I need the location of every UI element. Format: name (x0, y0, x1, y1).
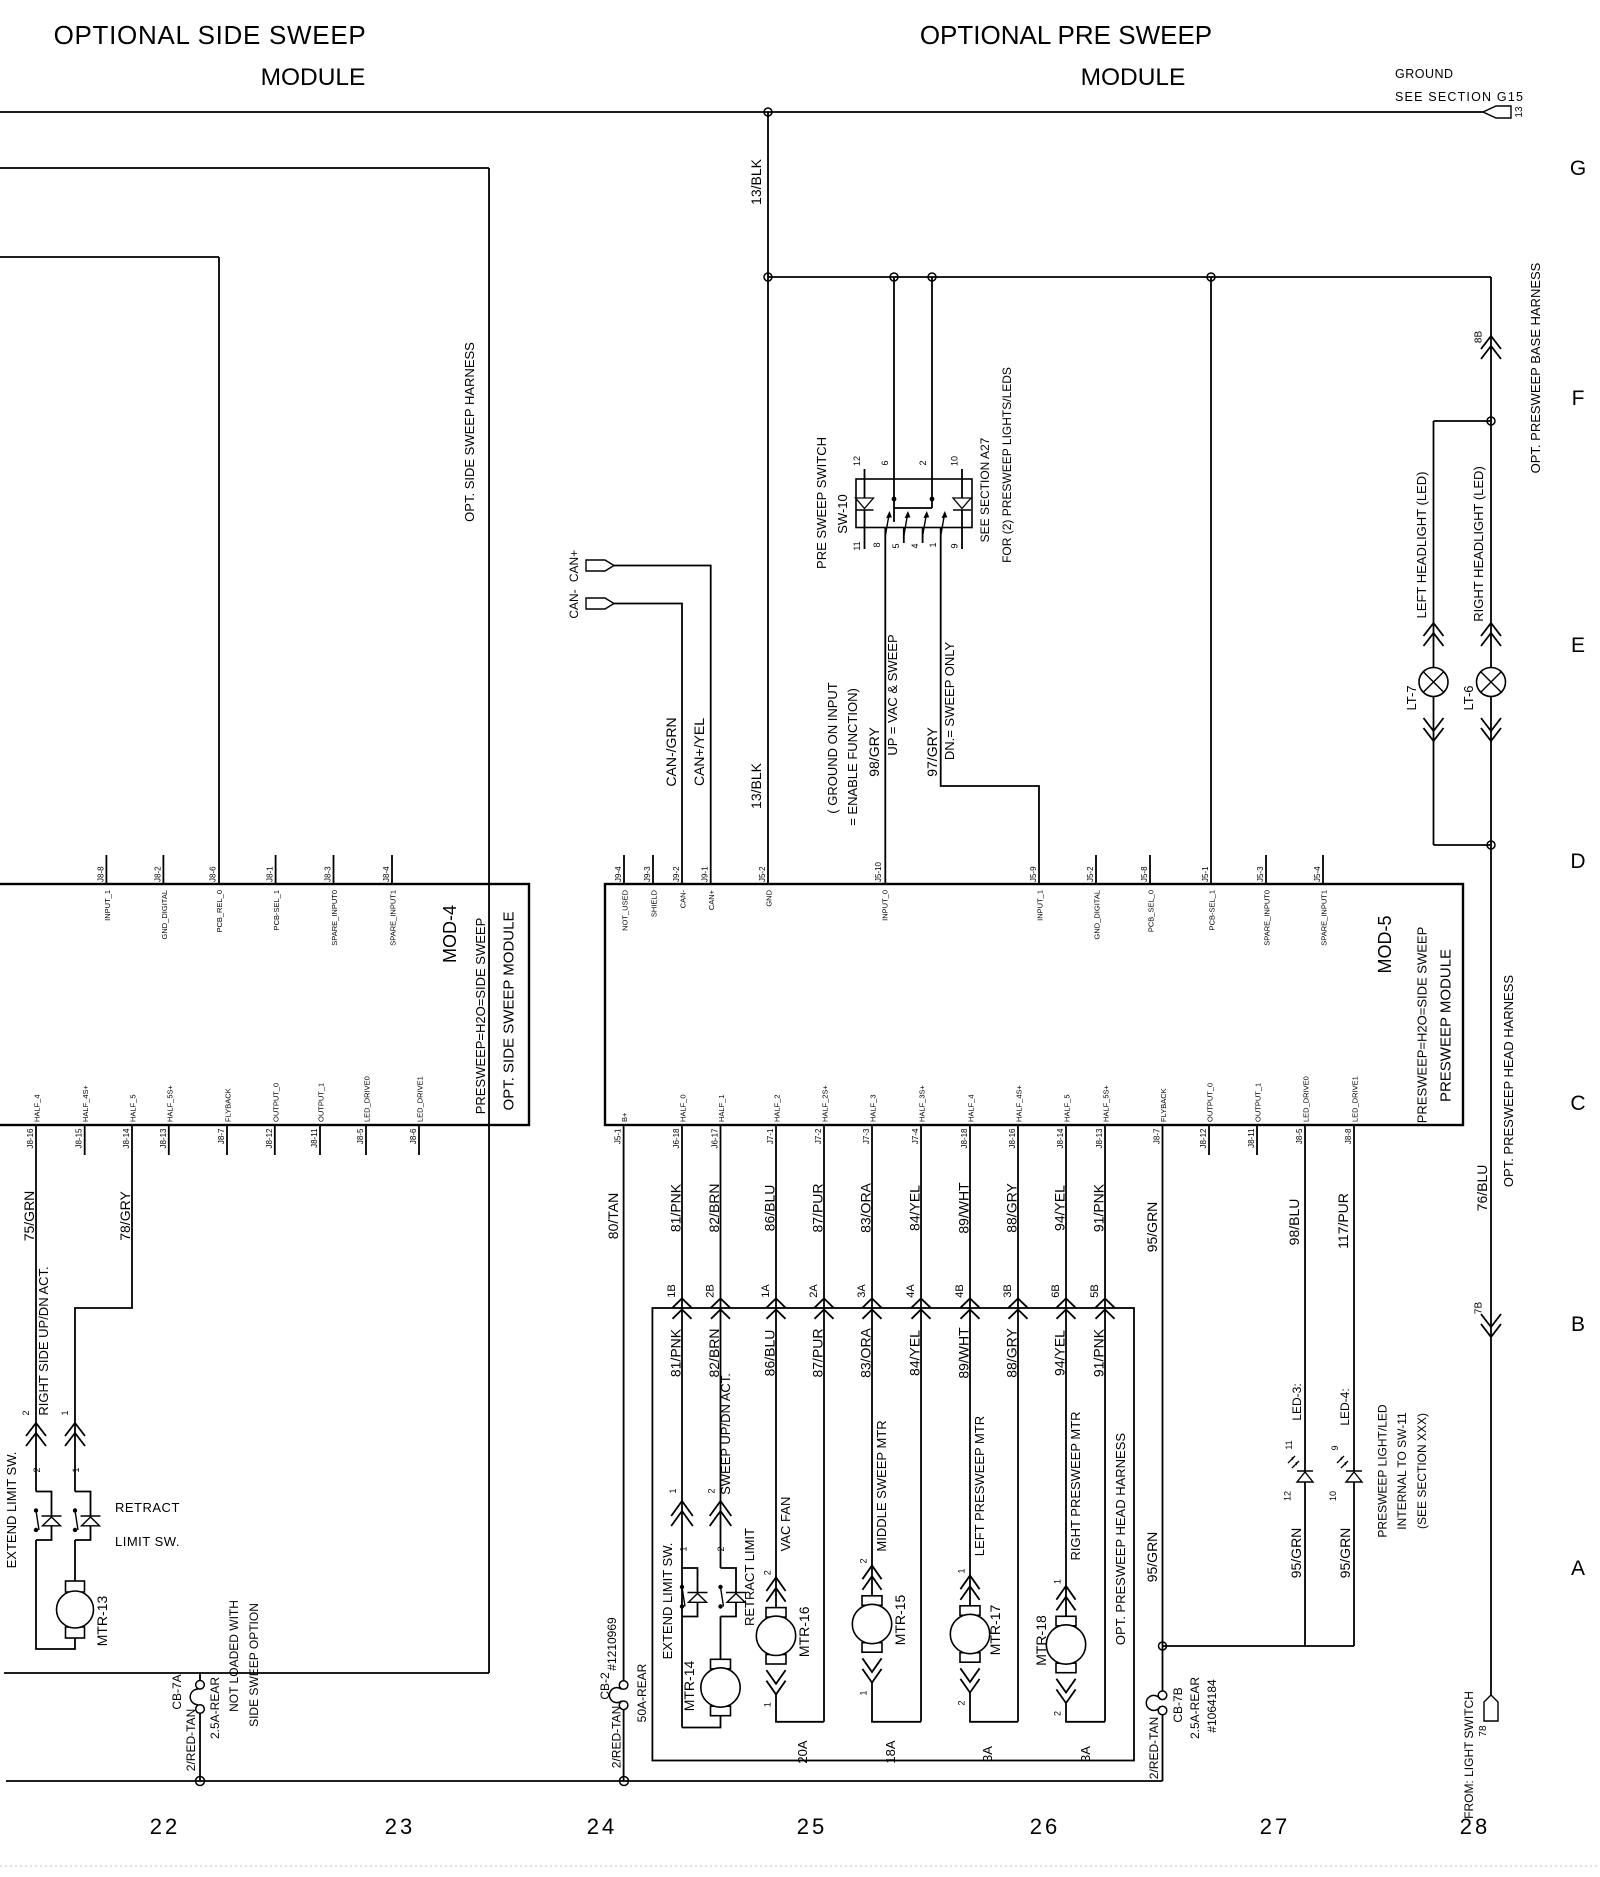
svg-text:LT-6: LT-6 (1461, 685, 1476, 710)
connector 4B head harness edge (954, 1284, 980, 1319)
svg-text:J8-13: J8-13 (1095, 1128, 1104, 1149)
pin J5-1 PCB-SEL_1 MOD-5 top (1201, 866, 1217, 931)
svg-text:CAN+/YEL: CAN+/YEL (691, 718, 707, 786)
connector chevrons below LT-6 (1481, 728, 1501, 741)
svg-text:2: 2 (957, 1700, 967, 1705)
wire line2 (0, 167, 489, 169)
svg-text:RIGHT HEADLIGHT (LED): RIGHT HEADLIGHT (LED) (1471, 466, 1486, 622)
svg-text:J7-3: J7-3 (862, 1128, 871, 1144)
svg-text:4B: 4B (954, 1284, 966, 1297)
svg-text:SPARE_INPUT0: SPARE_INPUT0 (1263, 890, 1272, 946)
node right/LT7 bottom (1487, 841, 1495, 849)
node bus2/13BLK (764, 273, 772, 281)
svg-text:VAC FAN: VAC FAN (778, 1497, 793, 1552)
svg-text:J8-14: J8-14 (1056, 1128, 1065, 1149)
module MOD-4 box (0, 884, 529, 1125)
wire CB-7A to bus 2/RED-TAN (184, 1709, 200, 1781)
svg-text:2.5A-REAR: 2.5A-REAR (1188, 1677, 1202, 1739)
svg-text:J7-1: J7-1 (766, 1128, 775, 1144)
svg-text:PRESWEEP LIGHT/LED: PRESWEEP LIGHT/LED (1376, 1404, 1390, 1537)
svg-text:J5-1: J5-1 (614, 1128, 623, 1144)
svg-text:J8-11: J8-11 (310, 1128, 319, 1148)
label RETRACT LIMIT SW. (115, 1500, 180, 1549)
svg-text:J9-4: J9-4 (614, 866, 623, 882)
svg-text:1: 1 (60, 1410, 70, 1415)
switch retract limit MTR-13 (75, 1492, 91, 1516)
svg-text:117/PUR: 117/PUR (1335, 1193, 1351, 1249)
svg-text:24: 24 (587, 1814, 617, 1839)
module MOD-5 box (605, 884, 1463, 1125)
svg-text:95/GRN: 95/GRN (1144, 1532, 1160, 1583)
svg-text:4: 4 (910, 543, 920, 548)
svg-text:HALF_5S+: HALF_5S+ (165, 1084, 174, 1122)
wire 83/ORA (3A) (858, 1125, 874, 1596)
svg-text:J8-13: J8-13 (159, 1128, 168, 1149)
connector chevrons above LT-6 (1481, 623, 1501, 636)
connector 2A head harness edge (808, 1284, 834, 1319)
wire bus2 horizontal (768, 276, 1491, 278)
motor MTR-16 (VAC FAN) (756, 1570, 824, 1722)
svg-text:1: 1 (763, 1702, 773, 1707)
pin J8-7 FLYBACK MOD-5 bottom (1153, 1088, 1169, 1144)
svg-text:CB-7B: CB-7B (1171, 1687, 1185, 1722)
svg-text:HALF_4S+: HALF_4S+ (81, 1084, 90, 1122)
node right/LT7 top (1487, 417, 1495, 425)
svg-text:HALF_5: HALF_5 (129, 1094, 138, 1122)
svg-text:SWEEP UP/DN ACT.: SWEEP UP/DN ACT. (718, 1373, 733, 1495)
svg-text:( GROUND ON INPUT: ( GROUND ON INPUT (825, 682, 840, 814)
svg-text:= ENABLE FUNCTION): = ENABLE FUNCTION) (845, 688, 860, 826)
svg-text:25: 25 (797, 1814, 827, 1839)
svg-text:G: G (1570, 157, 1586, 180)
connector 4A head harness edge (905, 1284, 931, 1319)
page border dotted (0, 1865, 1600, 1867)
svg-text:RETRACT LIMIT: RETRACT LIMIT (742, 1528, 757, 1626)
motor MTR-17 (LEFT PRESWEEP MTR) (950, 1568, 1018, 1721)
wire 81/PNK (1B) (668, 1125, 684, 1728)
svg-text:J8-8: J8-8 (1344, 1128, 1353, 1144)
connector ground 13 (1483, 106, 1525, 118)
pin J8-4 SPARE_INPUT1 MOD-4 top (382, 855, 398, 946)
lamp LT-6 (1461, 668, 1506, 711)
svg-text:8B: 8B (1474, 331, 1485, 344)
wire MTR-14 bottom loop (682, 1715, 721, 1727)
wire 98/GRY (866, 528, 900, 884)
svg-text:1: 1 (859, 1690, 869, 1695)
pin J9-3 SHIELD MOD-5 top (643, 855, 659, 917)
svg-text:J8-16: J8-16 (1008, 1128, 1017, 1149)
svg-text:87/PUR: 87/PUR (810, 1183, 826, 1232)
label ground on input (825, 682, 860, 826)
svg-text:91/PNK: 91/PNK (1091, 1183, 1107, 1232)
breaker CB-2 (598, 1617, 649, 1722)
wire 82/BRN (2B) (706, 1125, 722, 1568)
svg-text:PCB-SEL_1: PCB-SEL_1 (272, 890, 281, 930)
svg-text:6: 6 (880, 460, 890, 465)
node bus2 A (890, 273, 898, 281)
svg-text:2: 2 (918, 460, 928, 465)
connector 3A head harness edge (856, 1284, 882, 1319)
pin J8-18 HALF_4 MOD-5 bottom (960, 1094, 976, 1148)
pin J7-2 HALF_2S+ MOD-5 bottom (814, 1084, 830, 1144)
svg-text:MOD-5: MOD-5 (1375, 916, 1395, 974)
svg-text:89/WHT: 89/WHT (956, 1182, 972, 1234)
svg-text:OPT. PRESWEEP BASE HARNESS: OPT. PRESWEEP BASE HARNESS (1528, 262, 1543, 473)
svg-text:FROM: LIGHT SWITCH: FROM: LIGHT SWITCH (1462, 1691, 1476, 1819)
svg-text:J9-3: J9-3 (643, 866, 652, 882)
svg-text:94/YEL: 94/YEL (1052, 1330, 1068, 1376)
svg-text:OPT. SIDE SWEEP HARNESS: OPT. SIDE SWEEP HARNESS (462, 342, 477, 522)
svg-text:3A: 3A (1078, 1746, 1093, 1762)
svg-text:MTR-14: MTR-14 (681, 1661, 697, 1712)
svg-text:7B: 7B (1474, 1302, 1485, 1315)
node bus2 B (928, 273, 936, 281)
pin J8-16 HALF_4S+ MOD-5 bottom (1008, 1084, 1024, 1148)
svg-text:GND: GND (765, 889, 774, 906)
svg-text:1B: 1B (666, 1284, 678, 1297)
pin J8-12 OUTPUT_0 MOD-5 bottom (1199, 1083, 1215, 1155)
pin J8-12 OUTPUT_0 MOD-4 bottom (265, 1083, 281, 1155)
svg-text:SHIELD: SHIELD (650, 889, 659, 917)
wire LT-7 branch top (1434, 420, 1492, 422)
svg-text:J7-2: J7-2 (814, 1128, 823, 1144)
svg-text:SW-10: SW-10 (835, 494, 850, 534)
terminal CAN+ (567, 550, 614, 582)
svg-text:J8-12: J8-12 (1199, 1128, 1208, 1149)
connector 3B head harness edge (1002, 1284, 1028, 1319)
svg-text:10: 10 (1328, 1491, 1338, 1501)
node 95/GRN LED branch (1159, 1642, 1167, 1650)
svg-text:(SEE SECTION XXX): (SEE SECTION XXX) (1415, 1413, 1429, 1529)
svg-text:CAN+: CAN+ (567, 550, 581, 582)
pin J5-2 GND MOD-5 top (758, 866, 774, 907)
pin J8-6 LED_DRIVE1 MOD-4 bottom (409, 1076, 425, 1155)
svg-text:J5-2: J5-2 (758, 866, 767, 882)
svg-text:13: 13 (1514, 106, 1525, 118)
connector 7B (1474, 1302, 1502, 1337)
svg-text:MTR-13: MTR-13 (94, 1596, 110, 1647)
svg-text:LED-4:: LED-4: (1338, 1388, 1352, 1425)
motor MTR-18 (RIGHT PRESWEEP MTR) (1033, 1579, 1105, 1722)
svg-text:FLYBACK: FLYBACK (224, 1088, 233, 1122)
svg-text:CAN-/GRN: CAN-/GRN (663, 717, 679, 786)
svg-text:83/ORA: 83/ORA (858, 1182, 874, 1232)
svg-text:81/PNK: 81/PNK (668, 1183, 684, 1232)
svg-text:11: 11 (852, 541, 862, 550)
switch SW-10 contact 4 (910, 511, 929, 549)
wire 75/GRN (21, 1125, 37, 1492)
svg-text:5B: 5B (1089, 1284, 1101, 1297)
svg-text:PRESWEEP=H2O=SIDE SWEEP: PRESWEEP=H2O=SIDE SWEEP (473, 918, 488, 1115)
svg-text:J8-8: J8-8 (96, 866, 105, 882)
svg-text:CAN-: CAN- (567, 589, 581, 618)
svg-text:27: 27 (1260, 1814, 1290, 1839)
svg-text:MTR-15: MTR-15 (892, 1595, 908, 1646)
wire 78/GRY (75, 1125, 133, 1492)
svg-text:J9-1: J9-1 (701, 866, 710, 882)
pin J8-13 HALF_5S+ MOD-5 bottom (1095, 1084, 1111, 1148)
switch extend limit MTR-14 (682, 1568, 698, 1592)
svg-text:HALF_3S+: HALF_3S+ (918, 1084, 927, 1122)
svg-text:OUTPUT_1: OUTPUT_1 (1254, 1083, 1263, 1122)
svg-text:1: 1 (928, 542, 938, 547)
svg-text:26: 26 (1030, 1814, 1060, 1839)
node bus CB-7A (196, 1777, 205, 1786)
svg-text:PRE SWEEP SWITCH: PRE SWEEP SWITCH (814, 437, 829, 569)
pin J7-4 HALF_3S+ MOD-5 bottom (911, 1084, 927, 1144)
svg-text:HALF_2S+: HALF_2S+ (821, 1084, 830, 1122)
pin J5-2 GND_DIGITAL MOD-5 top (1086, 855, 1102, 939)
svg-text:J6-18: J6-18 (672, 1128, 681, 1149)
wire LED-4 cathode (1337, 1482, 1354, 1646)
svg-text:LED-3:: LED-3: (1290, 1383, 1304, 1420)
svg-text:83/ORA: 83/ORA (858, 1327, 874, 1377)
breaker CB-7A (170, 1673, 222, 1739)
svg-text:2: 2 (707, 1488, 717, 1493)
svg-text:INPUT_0: INPUT_0 (881, 890, 890, 921)
wire ground bus 13 (0, 111, 1483, 113)
svg-text:C: C (1570, 1092, 1585, 1115)
wire feeder line y1673 (4, 1672, 489, 1674)
svg-text:SEE SECTION A27: SEE SECTION A27 (978, 437, 992, 542)
svg-text:RETRACT: RETRACT (115, 1500, 180, 1515)
wire 86/BLU (1A) (762, 1125, 778, 1608)
svg-text:2: 2 (716, 1546, 726, 1551)
motor MTR-14 (681, 1617, 740, 1716)
wire 97/GRY (924, 528, 1039, 884)
pin J8-3 SPARE_INPUT0 MOD-4 top (324, 855, 340, 946)
svg-text:J5-4: J5-4 (1313, 866, 1322, 882)
svg-text:10: 10 (950, 456, 960, 466)
led LED-4 (1328, 1388, 1362, 1501)
svg-text:EXTEND LIMIT SW.: EXTEND LIMIT SW. (4, 1452, 19, 1569)
svg-text:HALF_2: HALF_2 (773, 1094, 782, 1122)
pin J8-15 HALF_4S+ MOD-4 bottom (75, 1084, 91, 1155)
svg-text:J6-17: J6-17 (711, 1128, 720, 1149)
svg-text:J8-3: J8-3 (324, 866, 333, 882)
wire MTR-13 bottom loop (36, 1540, 75, 1649)
wire LT-7 upper (1433, 421, 1435, 668)
svg-text:J8-18: J8-18 (960, 1128, 969, 1149)
svg-text:2/RED-TAN: 2/RED-TAN (610, 1706, 624, 1768)
svg-text:J8-1: J8-1 (266, 866, 275, 882)
svg-text:INTERNAL TO SW-11: INTERNAL TO SW-11 (1395, 1412, 1409, 1530)
connector 5B head harness edge (1089, 1284, 1115, 1319)
svg-text:J8-5: J8-5 (1295, 1128, 1304, 1144)
svg-text:2/RED-TAN: 2/RED-TAN (184, 1709, 198, 1771)
pin J7-3 HALF_3 MOD-5 bottom (862, 1094, 878, 1144)
svg-text:82/BRN: 82/BRN (706, 1328, 722, 1377)
svg-text:GROUND: GROUND (1395, 67, 1454, 81)
svg-text:J8-12: J8-12 (265, 1128, 274, 1149)
svg-text:98/GRY: 98/GRY (866, 727, 882, 777)
svg-text:J5-9: J5-9 (1029, 866, 1038, 882)
pin J8-6 PCB_REL_0 MOD-4 top (209, 866, 225, 933)
svg-text:87/PUR: 87/PUR (810, 1328, 826, 1377)
connector 8B (1474, 331, 1502, 359)
svg-text:HALF_5: HALF_5 (1063, 1094, 1072, 1122)
svg-text:J5-1: J5-1 (1201, 866, 1210, 882)
svg-text:84/YEL: 84/YEL (907, 1330, 923, 1376)
svg-text:OPT. SIDE SWEEP MODULE: OPT. SIDE SWEEP MODULE (501, 912, 518, 1111)
svg-text:PRESWEEP MODULE: PRESWEEP MODULE (1438, 949, 1455, 1102)
wire CAN+/YEL (614, 566, 711, 885)
wire SW-10 pin 2 (918, 277, 934, 508)
pin J5-10 INPUT_0 MOD-5 top (874, 861, 890, 920)
svg-text:RIGHT PRESWEEP MTR: RIGHT PRESWEEP MTR (1068, 1411, 1083, 1560)
svg-text:J8-7: J8-7 (217, 1128, 226, 1144)
svg-text:MTR-18: MTR-18 (1033, 1615, 1049, 1666)
pin J6-17 HALF_1 MOD-5 bottom (711, 1094, 727, 1148)
pin J8-11 OUTPUT_1 MOD-4 bottom (310, 1083, 326, 1155)
svg-text:OPT. PRESWEEP HEAD HARNESS: OPT. PRESWEEP HEAD HARNESS (1501, 975, 1516, 1187)
svg-text:NOT LOADED WITH: NOT LOADED WITH (227, 1600, 241, 1712)
svg-text:8: 8 (872, 542, 882, 547)
svg-text:1: 1 (957, 1568, 967, 1573)
svg-text:INPUT_1: INPUT_1 (1036, 890, 1045, 921)
svg-text:INPUT_1: INPUT_1 (103, 890, 112, 921)
svg-text:5: 5 (891, 543, 901, 548)
wire CAN-/GRN (614, 604, 682, 885)
svg-text:84/YEL: 84/YEL (907, 1185, 923, 1231)
svg-text:20A: 20A (795, 1740, 810, 1763)
svg-text:9: 9 (1330, 1445, 1340, 1450)
pin J8-16 HALF_4 MOD-4 bottom (26, 1094, 42, 1148)
svg-text:3B: 3B (1002, 1284, 1014, 1297)
svg-text:97/GRY: 97/GRY (924, 727, 940, 777)
svg-text:LEFT PRESWEEP MTR: LEFT PRESWEEP MTR (972, 1416, 987, 1556)
svg-text:CAN-: CAN- (679, 890, 688, 909)
pin J9-1 CAN+ MOD-5 top (701, 866, 717, 910)
svg-text:OUTPUT_0: OUTPUT_0 (271, 1083, 280, 1122)
svg-text:OUTPUT_0: OUTPUT_0 (1206, 1083, 1215, 1122)
svg-text:2: 2 (763, 1570, 773, 1575)
svg-text:82/BRN: 82/BRN (706, 1183, 722, 1232)
pin J8-5 LED_DRIVE0 MOD-4 bottom (356, 1076, 372, 1155)
svg-text:LED_DRIVE0: LED_DRIVE0 (1302, 1076, 1311, 1122)
svg-text:J7-4: J7-4 (911, 1128, 920, 1144)
svg-text:MODULE: MODULE (1081, 64, 1186, 91)
svg-text:J5-10: J5-10 (874, 861, 883, 882)
svg-text:LED_DRIVE1: LED_DRIVE1 (416, 1076, 425, 1122)
wire 89/WHT (4B) (956, 1125, 972, 1606)
pin J5-8 PCB_SEL_0 MOD-5 top (1140, 855, 1156, 932)
label NOT LOADED WITH SIDE SWEEP OPTION (227, 1600, 261, 1727)
connector 6B head harness edge (1050, 1284, 1076, 1319)
diode SW-10 pin 10-9 (950, 456, 972, 549)
connector 2B head harness edge (705, 1284, 731, 1319)
svg-text:86/BLU: 86/BLU (762, 1330, 778, 1377)
svg-text:78/GRY: 78/GRY (117, 1191, 133, 1241)
svg-text:SIDE SWEEP OPTION: SIDE SWEEP OPTION (247, 1603, 261, 1727)
svg-text:95/GRN: 95/GRN (1144, 1202, 1160, 1253)
wire PCB-SEL_1 drop (1210, 277, 1212, 884)
svg-text:E: E (1571, 634, 1585, 657)
svg-text:89/WHT: 89/WHT (956, 1327, 972, 1379)
wire right line mid (1490, 697, 1492, 1696)
svg-text:J8-5: J8-5 (356, 1128, 365, 1144)
wire bottom power bus (6, 1780, 1163, 1782)
svg-text:1: 1 (668, 1488, 678, 1493)
svg-text:1: 1 (679, 1546, 689, 1551)
wire 98/BLU LED_DRIVE0 (1286, 1125, 1305, 1471)
svg-text:81/PNK: 81/PNK (668, 1328, 684, 1377)
svg-text:95/GRN: 95/GRN (1288, 1528, 1304, 1579)
svg-text:J8-6: J8-6 (409, 1128, 418, 1144)
wire LED return (1163, 1645, 1355, 1647)
connector 1A head harness edge (760, 1284, 786, 1319)
svg-text:18A: 18A (883, 1740, 898, 1763)
svg-text:2B: 2B (705, 1284, 717, 1297)
svg-text:11: 11 (1284, 1440, 1294, 1449)
wire CB-2 to bus 2/RED-TAN (610, 1706, 624, 1781)
svg-text:78: 78 (1478, 1725, 1489, 1737)
svg-text:J8-15: J8-15 (75, 1128, 84, 1149)
svg-text:D: D (1570, 850, 1585, 873)
svg-text:98/BLU: 98/BLU (1286, 1199, 1302, 1246)
connector chevrons above LT-7 (1424, 623, 1444, 636)
svg-text:1: 1 (1053, 1579, 1063, 1584)
pin J9-4 NOT_USED MOD-5 top (614, 855, 630, 931)
pin J9-2 CAN- MOD-5 top (672, 866, 688, 908)
pin J5-9 INPUT_1 MOD-5 top (1029, 866, 1045, 921)
svg-text:MTR-17: MTR-17 (987, 1605, 1003, 1656)
switch retract limit MTR-14 (721, 1568, 737, 1592)
svg-text:SPARE_INPUT1: SPARE_INPUT1 (1320, 890, 1329, 946)
wire 88/GRY (3B) (1004, 1125, 1020, 1722)
wire right line top (1490, 277, 1492, 668)
svg-text:SEE SECTION G15: SEE SECTION G15 (1395, 90, 1524, 104)
svg-text:J5-3: J5-3 (1256, 866, 1265, 882)
breaker CB-7B (1146, 1677, 1219, 1739)
node bus CB-2 (620, 1777, 629, 1786)
svg-text:DN.= SWEEP ONLY: DN.= SWEEP ONLY (942, 641, 957, 760)
connector pins 1 MTR-13 retract (60, 1410, 85, 1472)
svg-text:J8-14: J8-14 (122, 1128, 131, 1149)
pin J6-18 HALF_0 MOD-5 bottom (672, 1094, 688, 1148)
wire opt side sweep harness vertical (488, 168, 490, 1673)
svg-text:2.5A-REAR: 2.5A-REAR (208, 1677, 222, 1739)
svg-text:3A: 3A (980, 1746, 995, 1762)
svg-text:CB-2: CB-2 (598, 1672, 612, 1700)
svg-text:PCB_SEL_0: PCB_SEL_0 (1147, 890, 1156, 932)
svg-text:12: 12 (852, 456, 862, 466)
connector pins 2 MTR-13 extend (21, 1410, 46, 1472)
svg-text:OUTPUT_1: OUTPUT_1 (317, 1083, 326, 1122)
svg-text:HALF_1: HALF_1 (717, 1094, 726, 1122)
wire 117/PUR LED_DRIVE1 (1335, 1125, 1354, 1471)
svg-text:91/PNK: 91/PNK (1091, 1328, 1107, 1377)
svg-text:2: 2 (21, 1410, 31, 1415)
svg-text:OPT. PRESWEEP HEAD HARNESS: OPT. PRESWEEP HEAD HARNESS (1113, 1433, 1128, 1645)
svg-text:J8-4: J8-4 (382, 866, 391, 882)
svg-text:B: B (1571, 1313, 1585, 1336)
svg-text:RIGHT SIDE UP/DN ACT.: RIGHT SIDE UP/DN ACT. (36, 1266, 51, 1415)
terminal 78 from light switch (1478, 1695, 1498, 1737)
pin J5-1 B+ MOD-5 bottom (614, 1112, 630, 1144)
svg-text:J8-11: J8-11 (1247, 1128, 1256, 1148)
svg-text:J8-16: J8-16 (26, 1128, 35, 1149)
svg-text:UP = VAC & SWEEP: UP = VAC & SWEEP (885, 634, 900, 755)
svg-text:MIDDLE SWEEP MTR: MIDDLE SWEEP MTR (874, 1420, 889, 1551)
switch SW-10 contact 1 (928, 511, 947, 548)
svg-text:4A: 4A (905, 1284, 917, 1298)
pin J8-7 FLYBACK MOD-4 bottom (217, 1088, 233, 1155)
connector pins 1 MTR-14 (668, 1488, 693, 1551)
wire J8-6 drop (218, 257, 220, 884)
svg-text:22: 22 (150, 1814, 180, 1839)
svg-text:3A: 3A (856, 1284, 868, 1298)
